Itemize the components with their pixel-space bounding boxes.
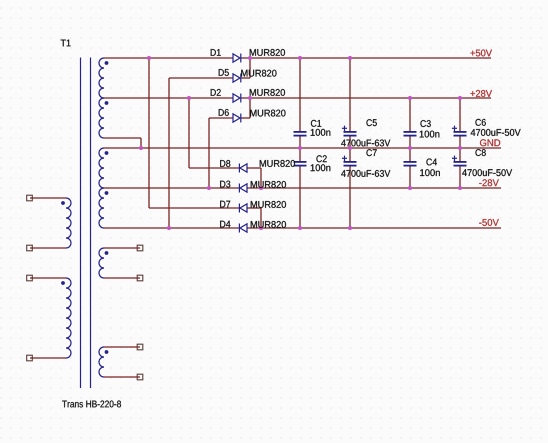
label C5 value — [341, 140, 390, 147]
winding W4 phase dot — [105, 191, 109, 195]
wire vertical D6 row to D3 row — [208, 118, 210, 188]
junction +50V / C1 — [298, 56, 302, 60]
capacitor C5 — [342, 126, 357, 137]
wire column C2 lower — [299, 167, 301, 229]
wire column C3 upper — [409, 98, 411, 131]
winding W6 aux secondary — [99, 347, 104, 377]
wire D7 anode stub — [247, 207, 262, 209]
capacitor C3 — [404, 131, 417, 137]
diode D2 — [233, 94, 241, 103]
label D4 value — [251, 221, 286, 228]
wire column C1-C2 middle — [299, 137, 301, 162]
winding W3 secondary — [99, 148, 104, 188]
wire vertical D2 row to D8 row — [188, 98, 190, 168]
winding W5 phase dot — [105, 251, 109, 255]
diode D1 — [233, 54, 241, 63]
winding W6 phase dot — [105, 350, 109, 354]
junction GND / C5-C7 — [348, 146, 352, 150]
diode D7 — [239, 204, 247, 213]
label D7 designator — [220, 201, 230, 208]
junction GND / C3-C4 — [408, 146, 412, 150]
label D1 value — [250, 49, 285, 56]
pin square W5 pin2 — [137, 275, 143, 281]
junction -50V / D5 branch — [167, 226, 171, 230]
label D8 value — [260, 160, 295, 167]
label C6 designator — [475, 119, 485, 126]
transformer T1 core — [81, 58, 91, 389]
capacitor C4 — [404, 161, 417, 167]
junction +50V / C5 — [348, 56, 352, 60]
label D2 designator — [211, 89, 221, 96]
label D8 designator — [220, 160, 230, 167]
capacitor C1 — [294, 131, 307, 137]
pin square P1 pin2 — [27, 245, 33, 251]
wire column C3-C4 middle — [409, 137, 411, 162]
wire W6 pin1 lead — [104, 346, 140, 348]
capacitor C8 — [452, 156, 467, 167]
label C4 value — [420, 169, 440, 176]
wire P2 pin1 lead — [30, 277, 66, 279]
junction +50V / D5 branch — [248, 56, 252, 60]
wire column C6 upper — [459, 98, 461, 131]
junction +50V / D7 branch — [147, 56, 151, 60]
diode D3 — [239, 184, 247, 193]
wire D5 anode row — [169, 77, 233, 79]
label C7 value — [341, 170, 390, 177]
power label -28V — [479, 179, 499, 186]
label C3 value — [420, 131, 440, 138]
capacitor C2 — [294, 161, 307, 167]
wire D5 cathode stub — [241, 77, 250, 79]
diode D4 — [239, 224, 247, 233]
wire vertical D5 output to +50V — [249, 58, 251, 78]
label C2 value — [311, 164, 331, 171]
wire GND rail — [104, 147, 501, 149]
winding P1 phase dot — [61, 201, 65, 205]
pin square P2 pin1 — [27, 275, 33, 281]
wire column C5 upper — [349, 58, 351, 131]
label C2 designator — [316, 155, 326, 162]
winding W5 aux secondary — [99, 248, 104, 278]
junction -28V tap / D6 branch — [207, 186, 211, 190]
junction -28V / C8 — [458, 186, 462, 190]
winding W2 phase dot — [105, 101, 109, 105]
label C8 value — [462, 169, 512, 176]
wire vertical D7 to -50V rail — [260, 208, 262, 228]
junction -28V / C4 — [408, 186, 412, 190]
wire D6 cathode stub — [241, 117, 250, 119]
diode D5 — [233, 74, 241, 83]
power label +28V — [470, 90, 492, 97]
winding W3 phase dot — [105, 151, 109, 155]
winding W1 phase dot — [105, 61, 109, 65]
power label -50V — [479, 219, 499, 226]
label D3 value — [251, 181, 286, 188]
wire P1 pin1 lead — [30, 197, 66, 199]
wire D8 cathode row — [189, 167, 240, 169]
winding P2 phase dot — [61, 281, 65, 285]
label T1 value Trans HB-220-8 — [62, 401, 121, 408]
junction -50V / C2 — [298, 226, 302, 230]
diode D8 — [239, 164, 247, 173]
wire column C8 lower — [459, 167, 461, 189]
wire vertical D8 to -28V rail — [260, 168, 262, 188]
label D5 designator — [219, 69, 229, 76]
label C4 designator — [426, 159, 436, 166]
junction -50V / D7 branch — [259, 226, 263, 230]
winding W4 secondary — [99, 188, 104, 228]
label C7 designator — [366, 149, 376, 156]
power label +50V — [470, 50, 492, 57]
diode D6 — [233, 114, 241, 123]
wire D8 anode stub — [247, 167, 262, 169]
wire center tap W1-W2 to D2 anode — [104, 97, 233, 99]
label D6 designator — [219, 109, 229, 116]
label C6 value — [471, 129, 521, 136]
label D6 value — [250, 110, 285, 117]
junction +28V / C6 — [458, 96, 462, 100]
wire W6 pin2 lead — [104, 376, 140, 378]
junction -28V / D8 branch — [259, 186, 263, 190]
wire center tap W3-W4 to D3 cathode — [104, 187, 240, 189]
wire column C5-C7 middle — [349, 137, 351, 162]
wire +50V rail — [241, 57, 491, 59]
junction GND / C1-C2 — [298, 146, 302, 150]
label D5 value — [241, 70, 276, 77]
capacitor C7 — [342, 156, 357, 167]
junction GND / W2 tap — [139, 146, 143, 150]
label D7 value — [251, 201, 286, 208]
wire column C6-C8 middle — [459, 137, 461, 162]
pin square W6 pin1 — [137, 344, 143, 350]
winding W2 secondary — [99, 98, 104, 138]
pin square W6 pin2 — [137, 374, 143, 380]
winding P2 primary — [66, 278, 71, 358]
label C1 designator — [311, 120, 321, 127]
wire P2 pin2 lead — [30, 357, 66, 359]
label C3 designator — [420, 120, 430, 127]
label C1 value — [311, 129, 331, 136]
wire W4 bottom to D4 cathode — [104, 227, 240, 229]
wire +28V rail — [241, 97, 491, 99]
winding P1 primary — [66, 198, 71, 248]
pin square P2 pin2 — [27, 355, 33, 361]
pin square W5 pin1 — [137, 245, 143, 251]
junction +28V tap / D8 branch — [187, 96, 191, 100]
junction GND / C6-C8 — [458, 146, 462, 150]
wire P1 pin2 lead — [30, 247, 66, 249]
wire vertical D5 row to D4 row — [168, 78, 170, 228]
pin square P1 pin1 — [27, 195, 33, 201]
label C5 designator — [366, 119, 376, 126]
label D2 value — [250, 89, 285, 96]
wire vertical D1 row to D7 row — [148, 58, 150, 208]
wire vertical D6 output to +28V — [249, 98, 251, 118]
wire -50V rail — [247, 227, 502, 229]
wire column C4 lower — [409, 167, 411, 189]
junction +28V / C3 — [408, 96, 412, 100]
wire W2 bottom jog horizontal — [104, 137, 141, 139]
label C8 designator — [475, 149, 485, 156]
wire column C7 lower — [349, 167, 351, 229]
wire W1 top to D1 anode — [104, 57, 233, 59]
wire W5 pin1 lead — [104, 247, 140, 249]
wire D7 cathode row — [149, 207, 240, 209]
label D3 designator — [220, 181, 230, 188]
wire W5 pin2 lead — [104, 277, 140, 279]
wire -28V rail — [247, 187, 502, 189]
wire W2 bottom jog vertical — [140, 138, 142, 148]
power label GND — [480, 139, 500, 146]
label D4 designator — [220, 221, 230, 228]
winding W1 secondary — [99, 58, 104, 98]
junction +28V / D6 branch — [248, 96, 252, 100]
wire D6 anode row — [209, 117, 233, 119]
label T1 designator — [61, 40, 71, 47]
label D1 designator — [211, 49, 221, 56]
junction -50V / C7 — [348, 226, 352, 230]
capacitor C6 — [452, 126, 467, 137]
wire column C1 upper — [299, 58, 301, 131]
